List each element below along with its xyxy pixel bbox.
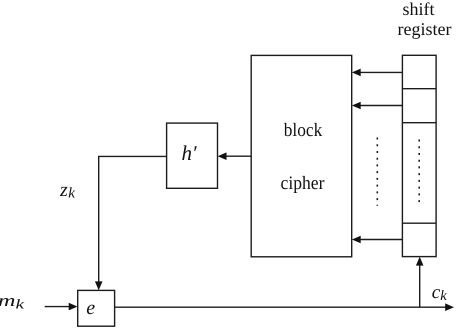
- svg-text:ck: ck: [432, 282, 447, 304]
- ellipsis dots between block cipher and shift register: [376, 138, 378, 206]
- shift register cell divider 3: [402, 222, 436, 224]
- svg-text:cipher: cipher: [281, 173, 326, 194]
- block cipher box: [251, 55, 352, 256]
- arrowhead into block cipher stage 2 wire: [352, 102, 361, 110]
- wire: register stage 2 to block cipher: [354, 105, 402, 107]
- arrowhead of m_k into e: [69, 303, 78, 311]
- arrowhead of output line at c_k: [445, 303, 454, 311]
- wire: register last stage to block cipher: [354, 239, 402, 241]
- shift register box: [402, 55, 436, 256]
- wire: h' output left and down to e: [99, 156, 167, 284]
- arrowhead into h': [218, 152, 227, 160]
- svg-text:shift: shift: [402, 0, 434, 19]
- svg-text:h′: h′: [182, 141, 198, 165]
- wire: register stage 1 to block cipher: [354, 71, 402, 73]
- arrowhead into block cipher stage 1 wire: [352, 69, 361, 77]
- wire: m_k input to e: [45, 306, 71, 308]
- svg-text:zk: zk: [59, 179, 75, 202]
- arrowhead up into shift register bottom: [416, 257, 424, 266]
- svg-text:register: register: [398, 19, 452, 39]
- e box: [78, 290, 115, 326]
- svg-text:e: e: [86, 297, 95, 319]
- wire: block cipher to h': [220, 155, 251, 157]
- wire: e output to c_k: [115, 306, 447, 308]
- svg-text:block: block: [284, 120, 323, 141]
- svg-text:mk: mk: [0, 291, 25, 311]
- arrowhead down into e: [95, 281, 103, 290]
- ellipsis dots inside shift register: [418, 140, 420, 207]
- h' box: [167, 123, 218, 188]
- shift register cell divider 2: [402, 122, 436, 124]
- arrowhead into block cipher last stage wire: [352, 236, 361, 244]
- wire: feedback from output line up into shift register: [419, 264, 421, 308]
- shift register cell divider 1: [402, 88, 436, 90]
